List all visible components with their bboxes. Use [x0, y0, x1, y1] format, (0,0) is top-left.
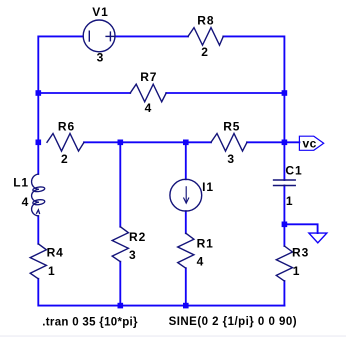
current source I1: [170, 179, 202, 211]
svg-text:1: 1: [286, 194, 294, 208]
wire bottom rail I1 node to right corner: [186, 305, 285, 307]
svg-text:R7: R7: [140, 70, 157, 84]
resistor R1: [178, 233, 194, 268]
svg-text:4: 4: [22, 195, 30, 209]
wire I1 to R1: [185, 211, 187, 233]
svg-text:.tran 0 35 {10*pi}: .tran 0 35 {10*pi}: [42, 317, 138, 329]
wire R8 to top-right corner down right rail: [223, 36, 284, 93]
capacitor C1: [274, 180, 296, 186]
wire stub to vc flag: [284, 141, 299, 143]
junction at bottom rail R2 node: [118, 303, 124, 309]
svg-text:R8: R8: [197, 14, 214, 28]
svg-text:I1: I1: [202, 180, 214, 194]
ground: [309, 233, 327, 243]
wire ground node to R3: [283, 224, 285, 246]
svg-text:1: 1: [293, 264, 301, 278]
svg-text:4: 4: [145, 101, 153, 115]
wire V1 to R8: [115, 35, 188, 37]
junction at right rail ground node: [282, 222, 288, 228]
svg-text:R6: R6: [58, 119, 75, 133]
wire top-left from left rail to V1: [38, 36, 83, 93]
svg-text:R1: R1: [197, 237, 214, 251]
node vc flag: [299, 136, 323, 150]
wire I1 node down to I1: [185, 142, 187, 179]
svg-text:4: 4: [197, 255, 205, 269]
wire R7 row left segment: [38, 92, 130, 94]
wire R2 node down to R2: [119, 142, 121, 226]
svg-text:3: 3: [97, 50, 105, 64]
svg-text:1: 1: [48, 264, 56, 278]
wire R5 to right rail: [247, 141, 284, 143]
resistor R6: [47, 134, 84, 152]
wire R4 to bottom rail: [38, 279, 120, 306]
svg-text:R4: R4: [47, 245, 64, 259]
junction at left rail mid row: [36, 140, 42, 146]
wire R1 to bottom rail: [185, 268, 187, 305]
voltage source V1: [83, 20, 115, 52]
svg-text:3: 3: [129, 248, 137, 262]
inductor L1: [32, 174, 46, 216]
resistor R7: [130, 84, 166, 102]
wire ground stub: [284, 224, 317, 233]
wire mid row R2 node to I1 node: [120, 141, 186, 143]
svg-text:C1: C1: [285, 164, 302, 178]
junction at I1 node mid row: [183, 140, 189, 146]
svg-text:R3: R3: [292, 245, 309, 259]
junction at bottom rail I1 node: [183, 303, 189, 309]
wire R2 to bottom rail: [119, 262, 121, 306]
junction at left rail R7 row: [36, 90, 42, 96]
wire right rail R7 row to mid row: [283, 93, 285, 142]
wire R3 to bottom rail corner: [283, 281, 285, 306]
svg-text:L1: L1: [13, 176, 29, 190]
resistor R2: [112, 227, 128, 262]
svg-text:vc: vc: [303, 136, 317, 150]
wire mid row R6 to R2 node: [84, 141, 120, 143]
wire R7 row right segment: [166, 92, 284, 94]
wire left rail R7 row to mid row: [37, 93, 39, 142]
wire mid row I1 node to R5: [186, 141, 211, 143]
svg-text:SINE(0 2 {1/pi} 0 0 90): SINE(0 2 {1/pi} 0 0 90): [169, 316, 297, 328]
wire right rail mid row to C1: [283, 142, 285, 180]
resistor R3: [276, 246, 292, 281]
resistor R4: [30, 244, 46, 279]
junction at right rail R7 row: [282, 90, 288, 96]
svg-text:R2: R2: [129, 230, 146, 244]
wire C1 to ground node: [283, 186, 285, 225]
svg-text:2: 2: [201, 45, 209, 59]
svg-text:3: 3: [227, 152, 235, 166]
resistor R8: [188, 28, 223, 46]
svg-text:R5: R5: [223, 119, 240, 133]
wire left rail mid row to L1: [37, 142, 39, 174]
junction at R2 node mid row: [118, 140, 124, 146]
junction at right rail mid row: [282, 140, 288, 146]
window edge line: [0, 335, 346, 336]
resistor R5: [211, 134, 247, 152]
wire bottom rail R2 node to I1 node: [120, 305, 186, 307]
svg-text:2: 2: [61, 152, 69, 166]
svg-text:V1: V1: [92, 5, 108, 19]
wire L1 to R4: [37, 216, 39, 244]
